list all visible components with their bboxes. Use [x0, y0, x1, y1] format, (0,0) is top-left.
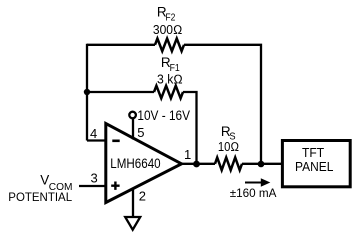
node junction dot RS/TFT	[258, 161, 265, 168]
wire RF1 right + vertical drop to output	[183, 92, 197, 164]
wire output to RS	[181, 163, 215, 165]
power terminal circle	[129, 112, 136, 119]
node junction dot inverting input	[84, 89, 90, 95]
wire RF1 left	[87, 91, 154, 93]
resistor RF2 zigzag	[155, 39, 184, 52]
svg-text:3: 3	[91, 171, 98, 186]
wire pin4 stub	[87, 139, 107, 141]
wire top feedback horizontal right + vertical drop to output node	[184, 45, 261, 164]
svg-text:10V - 16V: 10V - 16V	[137, 108, 190, 123]
svg-text:LMH6640: LMH6640	[110, 156, 160, 171]
svg-text:10Ω: 10Ω	[218, 139, 239, 154]
svg-text:POTENTIAL: POTENTIAL	[8, 190, 72, 204]
wire pin5 power stub	[132, 119, 134, 140]
op-amp U1 triangle	[106, 124, 182, 203]
svg-text:TFT: TFT	[302, 146, 325, 160]
node junction dot output	[193, 161, 200, 168]
wire RS to TFT panel	[242, 163, 282, 165]
wire top feedback horizontal left (inverting node to RF2)	[87, 44, 155, 46]
ground symbol	[125, 217, 140, 230]
current arrow	[245, 182, 262, 184]
wire pin2 ground stub	[132, 189, 134, 217]
wire inverting node vertical	[86, 44, 88, 141]
op-amp plus sign	[111, 182, 119, 190]
TFT panel box	[282, 141, 350, 187]
svg-text:5: 5	[137, 125, 144, 140]
svg-text:±160 mA: ±160 mA	[230, 186, 278, 200]
svg-text:3 kΩ: 3 kΩ	[157, 72, 183, 87]
resistor RF1 zigzag	[154, 86, 183, 99]
svg-text:2: 2	[139, 189, 146, 204]
wire pin3 input	[79, 185, 107, 187]
svg-text:4: 4	[90, 126, 97, 141]
svg-text:300Ω: 300Ω	[153, 22, 183, 37]
resistor RS zigzag	[215, 158, 242, 171]
op-amp minus sign	[112, 140, 119, 143]
svg-text:1: 1	[184, 147, 191, 162]
svg-text:PANEL: PANEL	[295, 160, 333, 174]
